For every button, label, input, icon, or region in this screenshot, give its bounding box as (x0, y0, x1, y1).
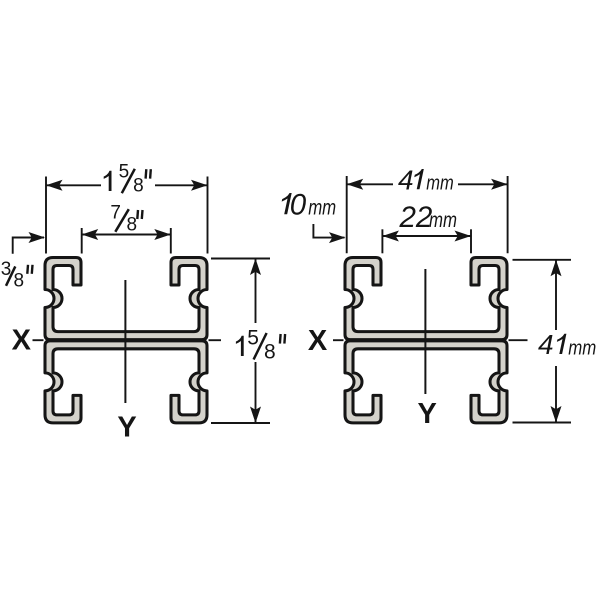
svg-text:mm: mm (429, 209, 457, 232)
svg-text:5: 5 (247, 327, 259, 350)
svg-text:Y: Y (117, 411, 136, 443)
dim 1-5/8 width: extension lines (45, 177, 47, 254)
Y axis centerline (424, 269, 426, 394)
dim 1-5/8 height: down arrow (255, 362, 257, 423)
X axis centerline right stub (209, 339, 222, 341)
dim 10mm leader (313, 224, 344, 238)
svg-text:Y: Y (418, 398, 437, 430)
svg-text:mm: mm (568, 337, 596, 359)
svg-text:4: 4 (538, 329, 554, 360)
dim 7/8 line with outward arrows (82, 234, 171, 236)
svg-text:mm: mm (308, 196, 336, 220)
dim text 7/8 in (110, 203, 142, 236)
dim 22mm opening: extension lines (381, 229, 383, 253)
dim 41mm width: left arrow (347, 183, 393, 185)
dim text 3/8 in (1, 259, 33, 292)
dim 22mm line with outward arrows (382, 235, 471, 237)
dim text 1 5/8 in vertical (236, 327, 285, 364)
svg-text:mm: mm (426, 173, 454, 195)
X axis centerline right stub (509, 339, 528, 341)
strut channel back-to-back profile (metric view) (345, 258, 507, 423)
dim 1-5/8 width: right arrow (155, 184, 208, 186)
dim 41mm height: up arrow (555, 260, 557, 330)
svg-text:8: 8 (14, 270, 25, 291)
svg-text:8: 8 (264, 341, 276, 364)
strut channel back-to-back profile (45, 258, 207, 423)
dim 7/8 opening: extension lines (81, 228, 83, 254)
dim text 10mm (279, 188, 336, 221)
dim 3/8 leader (13, 238, 44, 254)
X axis centerline left stub (333, 339, 344, 341)
dim 1-5/8 height: extension lines (211, 258, 270, 260)
svg-text:5: 5 (119, 162, 130, 183)
dim text 1 5/8 in (104, 162, 151, 197)
dim 1-5/8 width: left arrow (46, 184, 101, 186)
svg-text:0: 0 (290, 188, 307, 221)
svg-text:8: 8 (127, 215, 138, 236)
X axis centerline left stub (33, 339, 44, 341)
svg-text:7: 7 (110, 203, 121, 224)
svg-text:X: X (12, 324, 32, 356)
svg-text:4: 4 (398, 164, 414, 195)
dim text 41mm vertical (538, 329, 596, 360)
dim 41mm width: extension lines (346, 176, 348, 253)
dim text 22mm (399, 201, 458, 234)
dim text 41mm (398, 164, 454, 195)
dim 41mm height: down arrow (555, 366, 557, 423)
dim 41mm height: extension lines (513, 259, 572, 261)
svg-text:X: X (308, 325, 328, 357)
dim 41mm width: right arrow (458, 183, 508, 185)
svg-text:8: 8 (133, 175, 144, 196)
svg-text:22: 22 (399, 201, 433, 234)
Y axis centerline (124, 280, 126, 403)
dim 1-5/8 height: up arrow (255, 259, 257, 324)
